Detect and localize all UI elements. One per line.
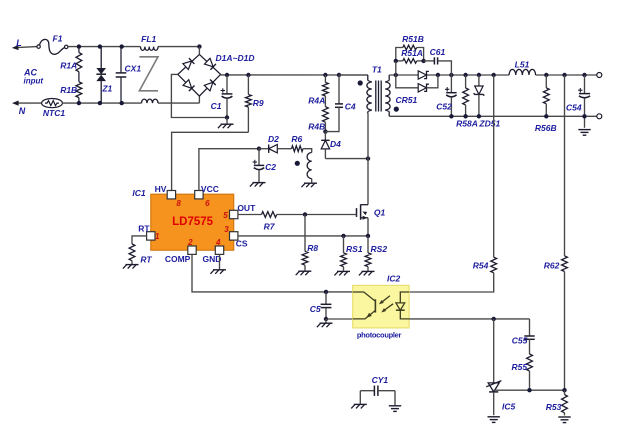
wire: R54 feed line <box>493 75 495 257</box>
pin number 1 <box>155 232 160 241</box>
mosfet Q1 body arrow <box>362 210 368 215</box>
T1 secondary polarity dot <box>394 107 399 112</box>
label R62 <box>544 261 560 271</box>
rectifier CR51 top diode <box>418 71 429 79</box>
svg-text:D1A~D1D: D1A~D1D <box>216 53 255 63</box>
svg-text:R6: R6 <box>291 134 302 144</box>
wire: R62 to divider <box>564 272 566 391</box>
svg-text:C1: C1 <box>211 101 222 111</box>
label R55 <box>512 362 528 372</box>
resistor R9 <box>246 75 252 132</box>
bridge rectifier D1A-D1D frame <box>178 47 221 104</box>
IC2 light arrow 1 <box>378 296 390 306</box>
svg-text:IC2: IC2 <box>387 273 401 283</box>
pin name VCC <box>201 184 219 194</box>
label R51A <box>401 48 423 58</box>
label R54 <box>473 261 489 271</box>
svg-text:OUT: OUT <box>237 203 256 213</box>
pin 5 OUT <box>230 210 238 218</box>
svg-text:5: 5 <box>223 211 228 220</box>
svg-text:R1A: R1A <box>60 61 77 71</box>
label IC1 <box>132 188 146 198</box>
svg-text:HV: HV <box>155 184 167 194</box>
resistor R62 <box>562 256 568 272</box>
label C4 <box>345 101 356 111</box>
wire: CS sense line <box>238 235 368 237</box>
wire: IC5 ref line <box>494 389 565 391</box>
shunt regulator IC5 <box>486 381 501 416</box>
svg-text:C52: C52 <box>436 102 452 112</box>
aux winding of T1 <box>307 153 312 183</box>
svg-text:COMP: COMP <box>165 254 191 264</box>
label CR51 <box>396 95 418 105</box>
svg-text:R51B: R51B <box>402 34 424 44</box>
svg-text:VCC: VCC <box>201 184 219 194</box>
capacitor C5 <box>321 292 332 319</box>
output terminal positive <box>597 73 602 78</box>
svg-text:N: N <box>19 106 26 116</box>
resistor R51B <box>396 45 424 61</box>
svg-text:R4B: R4B <box>308 122 325 132</box>
pin 8 HV <box>167 191 175 199</box>
svg-text:RT: RT <box>138 223 150 233</box>
label R1A <box>60 61 77 71</box>
wire: COMP line <box>192 254 353 292</box>
label R8 <box>307 243 318 253</box>
optocoupler IC2 body <box>353 285 409 328</box>
junction dots CS line <box>341 234 370 238</box>
pin name COMP <box>165 254 191 264</box>
label R4A <box>308 95 325 105</box>
pin name RT <box>138 223 150 233</box>
svg-text:8: 8 <box>176 199 181 208</box>
resistor R51A <box>396 59 424 64</box>
capacitor CX1 <box>116 47 127 104</box>
mosfet Q1 drain stub <box>361 204 368 206</box>
mosfet Q1 gate bar <box>356 208 358 217</box>
svg-text:Q1: Q1 <box>374 207 386 217</box>
svg-text:IC1: IC1 <box>132 188 146 198</box>
label IC2 <box>387 273 401 283</box>
wire: T1 primary to Q1 drain <box>367 114 369 205</box>
ground under C1 <box>218 118 234 129</box>
bridge diode D1A <box>183 58 194 69</box>
pin 4 GND <box>215 246 223 254</box>
resistor R53 <box>562 390 568 415</box>
pin name CS <box>236 239 248 249</box>
wire: main HV rail <box>221 74 368 76</box>
svg-text:Z1: Z1 <box>101 83 112 93</box>
ground under IC5 <box>488 417 500 423</box>
label C55 <box>512 335 528 345</box>
rectifier CR51 bottom diode <box>396 75 438 92</box>
svg-text:RS2: RS2 <box>371 244 388 254</box>
svg-text:CY1: CY1 <box>372 375 389 385</box>
label C54 <box>566 102 582 112</box>
capacitor C54 <box>578 75 590 128</box>
wire: R54 to IC2 anode <box>409 273 494 292</box>
svg-text:L51: L51 <box>515 59 530 69</box>
wire: secondary top rail <box>389 74 597 76</box>
resistor R4B <box>323 107 329 132</box>
svg-text:R56B: R56B <box>535 123 557 133</box>
label C5 <box>310 304 321 314</box>
svg-text:photocoupler: photocoupler <box>357 330 402 339</box>
svg-text:D2: D2 <box>268 134 279 144</box>
resistor RS2 <box>365 236 371 271</box>
svg-text:2: 2 <box>187 238 193 247</box>
pin number 3 <box>224 225 229 234</box>
label RT <box>140 255 152 265</box>
label RS2 <box>371 244 388 254</box>
resistor R54 <box>491 257 497 273</box>
svg-text:R62: R62 <box>544 261 560 271</box>
label ZD51 <box>478 119 500 129</box>
junction dots secondary bottom rail <box>449 114 587 118</box>
wire: R62 sense line <box>564 75 566 256</box>
ground under RS2 <box>359 271 375 275</box>
IC2 LED <box>396 292 409 319</box>
svg-text:L: L <box>16 38 22 48</box>
svg-text:IC5: IC5 <box>502 402 516 412</box>
svg-text:C2: C2 <box>265 162 276 172</box>
output terminal negative <box>597 114 602 119</box>
svg-text:6: 6 <box>205 199 210 208</box>
resistor R56B <box>543 75 549 116</box>
wire: IC2 cathode line <box>409 318 529 320</box>
resistor R58A <box>463 75 469 116</box>
wire: secondary bottom rail <box>389 115 597 117</box>
junction dots bottom rail <box>77 101 124 105</box>
svg-text:C5: C5 <box>310 304 321 314</box>
label R51B <box>402 34 424 44</box>
svg-text:C4: C4 <box>345 101 356 111</box>
junction dot clamp node <box>323 129 327 133</box>
pin 6 VCC <box>195 191 203 199</box>
label R9 <box>253 98 264 108</box>
svg-text:R55: R55 <box>512 362 528 372</box>
resistor R6 <box>292 146 304 152</box>
label RS1 <box>346 244 363 254</box>
svg-text:RT: RT <box>140 255 152 265</box>
svg-text:R51A: R51A <box>401 48 423 58</box>
wire: N input line with arrow <box>12 101 42 106</box>
diode D4 <box>321 132 329 159</box>
IC U1 LD7575 body <box>151 194 234 250</box>
resistor R4A <box>323 75 329 107</box>
label L51 <box>515 59 530 69</box>
capacitor C55 <box>524 319 534 339</box>
junction dot LED cathode node <box>492 317 496 321</box>
resistor RS1 <box>341 236 347 271</box>
label R7 <box>264 222 276 232</box>
node L label <box>16 38 22 48</box>
junction dots HV rail <box>225 73 341 77</box>
wire: L input line with arrow <box>12 45 37 51</box>
svg-text:R58A: R58A <box>456 119 478 129</box>
svg-text:C54: C54 <box>566 102 582 112</box>
label CY1 <box>372 375 389 385</box>
IC2 phototransistor <box>353 292 376 319</box>
label Q1 <box>374 207 386 217</box>
common-mode choke FL1 <box>139 47 158 104</box>
label photocoupler <box>357 330 402 339</box>
junction dot drain-clamp <box>366 156 370 160</box>
label C1 <box>211 101 222 111</box>
label R56B <box>535 123 557 133</box>
svg-text:1: 1 <box>155 232 160 241</box>
label D1A~D1D <box>216 53 255 63</box>
junction dot COMP-C5 <box>324 290 328 294</box>
label R4B <box>308 122 325 132</box>
svg-text:R54: R54 <box>473 261 489 271</box>
capacitor C2 <box>253 149 265 182</box>
svg-text:R9: R9 <box>253 98 264 108</box>
TVS Z1 <box>96 47 106 104</box>
wire: to IC5 <box>493 319 495 383</box>
mosfet Q1 channel <box>360 204 362 219</box>
wire: OUT to gate <box>238 214 357 216</box>
svg-text:CX1: CX1 <box>125 63 142 73</box>
wire: bottom AC rail <box>62 102 199 104</box>
svg-text:R1B: R1B <box>60 85 77 95</box>
label AC input <box>23 68 43 86</box>
svg-text:C61: C61 <box>430 47 446 57</box>
svg-text:LD7575: LD7575 <box>172 216 214 228</box>
pin 2 COMP <box>188 246 196 254</box>
junction dot C5 bottom <box>324 317 328 321</box>
label C52 <box>436 102 452 112</box>
svg-text:D4: D4 <box>330 139 341 149</box>
ground under GND pin <box>210 270 226 274</box>
transformer T1 secondary <box>385 75 390 116</box>
wire: bridge negative loop <box>171 74 225 117</box>
inductor L51 <box>509 69 535 75</box>
diode D2 <box>259 145 292 153</box>
ground under C5 <box>317 319 333 327</box>
thermistor NTC1 <box>42 99 63 108</box>
label R53 <box>546 402 562 412</box>
label C61 <box>430 47 446 57</box>
svg-text:R7: R7 <box>264 222 276 232</box>
svg-text:RS1: RS1 <box>346 244 363 254</box>
capacitor C52 <box>445 75 457 116</box>
label IC5 <box>502 402 516 412</box>
bridge diode D1B <box>204 58 215 69</box>
pin number 5 <box>223 211 228 220</box>
resistor R7 <box>262 212 277 218</box>
ground right of CY1 <box>389 391 401 412</box>
capacitor C61 <box>424 57 452 75</box>
ground under aux winding <box>301 183 317 187</box>
zener ZD51 <box>474 75 485 116</box>
svg-text:3: 3 <box>224 225 229 234</box>
wire: top AC rail <box>68 46 200 48</box>
label T1 <box>372 65 382 75</box>
transformer T1 primary <box>339 75 372 114</box>
transformer T1 core <box>376 81 381 112</box>
label D2 <box>268 134 279 144</box>
fuse F1 <box>37 39 68 54</box>
resistor R55 <box>527 339 533 390</box>
svg-text:ZD51: ZD51 <box>478 119 500 129</box>
label R1B <box>60 85 77 95</box>
pin number 6 <box>205 199 210 208</box>
label R6 <box>291 134 302 144</box>
resistor R1B <box>76 82 82 103</box>
svg-text:CS: CS <box>236 239 248 249</box>
pin name GND <box>202 254 221 264</box>
ground left of CY1 <box>351 391 367 409</box>
mosfet Q1 source stub <box>361 216 368 236</box>
junction dots ref line <box>527 388 566 392</box>
svg-text:GND: GND <box>202 254 221 264</box>
svg-text:F1: F1 <box>53 33 63 43</box>
svg-text:R53: R53 <box>546 402 562 412</box>
ground under RT <box>123 265 139 269</box>
svg-text:CR51: CR51 <box>396 95 418 105</box>
label FL1 <box>141 34 156 44</box>
svg-text:FL1: FL1 <box>141 34 156 44</box>
wire: C5 to IC2 emitter <box>326 318 353 320</box>
svg-text:R8: R8 <box>307 243 318 253</box>
bridge diode D1C <box>183 80 194 91</box>
label F1 <box>53 33 63 43</box>
svg-text:NTC1: NTC1 <box>43 108 65 118</box>
IC2 light arrow 2 <box>380 304 393 314</box>
wire: clamp to drain <box>325 158 368 160</box>
pin 3 CS <box>230 232 238 240</box>
svg-text:input: input <box>24 77 44 86</box>
label R58A <box>456 119 478 129</box>
label NTC1 <box>43 108 65 118</box>
label CX1 <box>125 63 142 73</box>
ground under C54 <box>578 130 590 136</box>
junction dot VCC node <box>257 147 261 151</box>
ground under C2 <box>250 183 266 187</box>
svg-text:T1: T1 <box>372 65 382 75</box>
wire: R9 to HV pin <box>172 132 249 190</box>
pin name OUT <box>237 203 256 213</box>
bridge diode D1D <box>204 79 215 90</box>
junction dots top rail <box>77 44 202 48</box>
capacitor CY1 <box>360 386 395 396</box>
wire: VCC supply <box>199 149 259 191</box>
wire: GND pin to ground <box>219 254 221 269</box>
aux winding polarity dot <box>295 161 300 166</box>
ground under R8 <box>296 271 312 275</box>
svg-text:C55: C55 <box>512 335 528 345</box>
pin number 2 <box>187 238 193 247</box>
ground under R53 <box>558 417 570 423</box>
resistor RT <box>129 244 135 264</box>
wire: snubber left leg <box>395 61 397 75</box>
junction dots secondary top rail <box>394 73 587 77</box>
svg-text:4: 4 <box>215 238 221 247</box>
svg-text:R4A: R4A <box>308 95 325 105</box>
pin 1 RT <box>147 232 155 240</box>
capacitor C1 <box>221 75 233 120</box>
junction dots snubber <box>394 59 426 63</box>
label C2 <box>265 162 276 172</box>
wire: RT pin to RT resistor <box>132 236 147 244</box>
node N label <box>19 106 26 116</box>
capacitor C4 <box>325 75 343 132</box>
resistor R8 <box>302 215 308 271</box>
label LD7575 <box>172 216 214 228</box>
pin number 4 <box>215 238 221 247</box>
label Z1 <box>101 83 112 93</box>
label D4 <box>330 139 341 149</box>
pin number 8 <box>176 199 181 208</box>
resistor R1A <box>76 47 82 82</box>
ground under RS1 <box>334 271 350 275</box>
T1 primary polarity dot <box>358 80 363 85</box>
wire: R6 to aux winding <box>303 149 312 153</box>
junction dot gate node <box>303 212 307 216</box>
pin name HV <box>155 184 167 194</box>
